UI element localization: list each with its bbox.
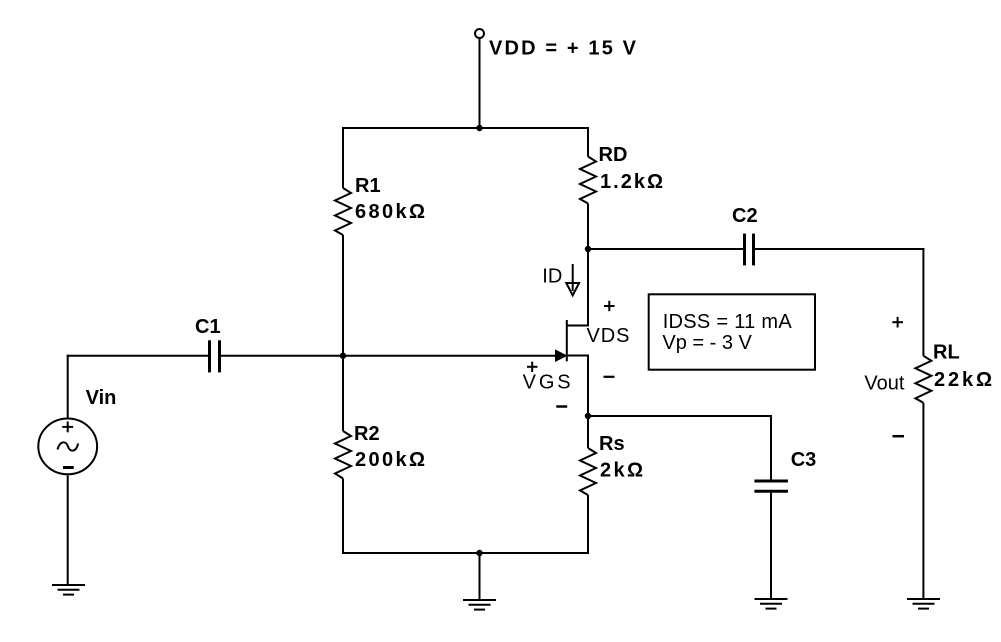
ground C3 (755, 599, 788, 609)
transistor Q1 JFET drain lead (567, 325, 589, 327)
source Vin circle (38, 419, 97, 475)
minus Vout (893, 435, 905, 438)
svg-text:Vin: Vin (86, 387, 117, 409)
resistor RD (580, 157, 596, 204)
svg-text:RL: RL (933, 342, 960, 364)
svg-text:IDSS = 11 mA: IDSS = 11 mA (663, 311, 793, 333)
wire left branch middle (342, 235, 344, 431)
ground middle (463, 600, 496, 610)
wire left branch lower (342, 479, 344, 555)
svg-text:Vp = - 3 V: Vp = - 3 V (662, 332, 752, 354)
svg-text:200kΩ: 200kΩ (355, 449, 425, 471)
svg-text:C2: C2 (732, 205, 758, 227)
ground RL (907, 599, 940, 609)
wire VDD stub (479, 38, 481, 128)
plus VGS (527, 366, 538, 368)
current arrow ID (566, 283, 579, 295)
plus VDS (604, 305, 615, 307)
polarity marks (527, 301, 904, 436)
wire source down (587, 355, 589, 449)
svg-text:Rs: Rs (599, 433, 625, 455)
transistor Q1 source lead (567, 355, 589, 357)
wire middle branch top (587, 127, 589, 157)
wire RL branch top (922, 248, 924, 356)
capacitor C1 (210, 340, 220, 372)
wire gate net: Vin to JFET gate (67, 355, 208, 357)
wire left branch upper (342, 127, 344, 188)
node gate (340, 353, 346, 359)
wire C1 to gate (221, 355, 564, 357)
resistor Rs (580, 448, 596, 495)
resistor RL (915, 356, 931, 403)
wire top rail (342, 127, 589, 129)
svg-text:C1: C1 (195, 316, 221, 338)
node source (585, 413, 591, 419)
capacitor C3 (754, 481, 788, 491)
svg-text:C3: C3 (791, 449, 817, 471)
svg-text:680kΩ: 680kΩ (355, 201, 425, 223)
svg-text:VDD = + 15 V: VDD = + 15 V (489, 38, 637, 60)
wire bottom rail (342, 552, 589, 554)
plus RL (892, 321, 903, 323)
resistor R1 (335, 188, 351, 235)
transistor Q1 gate arrow (556, 351, 565, 360)
transistor Q1 channel (566, 320, 568, 361)
VDD terminal (475, 29, 484, 38)
svg-text:R1: R1 (355, 175, 381, 197)
wire RL to ground (922, 403, 924, 598)
capacitor C2 (745, 234, 754, 266)
wire C3 branch top (770, 415, 772, 481)
node drain (585, 246, 591, 252)
node bottom rail (476, 550, 482, 556)
wire RD to drain (587, 204, 589, 327)
svg-text:ID: ID (542, 266, 562, 288)
wire drain node rail right (755, 248, 924, 250)
junction dots (340, 125, 591, 556)
svg-text:RD: RD (599, 144, 628, 166)
Vin plus (62, 422, 73, 433)
parameter box (649, 294, 815, 369)
svg-text:22kΩ: 22kΩ (934, 369, 992, 391)
svg-text:1.2kΩ: 1.2kΩ (600, 171, 663, 193)
wire drain node rail left (588, 248, 743, 250)
svg-text:Vout: Vout (864, 373, 904, 395)
node VDD/top rail (476, 125, 482, 131)
Vin minus (63, 466, 74, 469)
wire Vin drop (67, 355, 69, 418)
wire ground stub middle (479, 553, 481, 599)
svg-text:VDS: VDS (587, 325, 630, 347)
wire Rs to bottom rail (587, 495, 589, 554)
svg-text:2kΩ: 2kΩ (600, 460, 643, 482)
svg-text:R2: R2 (354, 423, 380, 445)
svg-text:VGS: VGS (523, 372, 571, 394)
wire C3 to ground (770, 493, 772, 598)
Vin sine (58, 442, 79, 450)
resistor R2 (335, 431, 351, 479)
ground Vin (52, 585, 85, 595)
wire source node rail (588, 415, 772, 417)
minus VGS (556, 405, 567, 408)
minus VDS (604, 376, 615, 378)
wire Vin to ground (67, 475, 69, 584)
